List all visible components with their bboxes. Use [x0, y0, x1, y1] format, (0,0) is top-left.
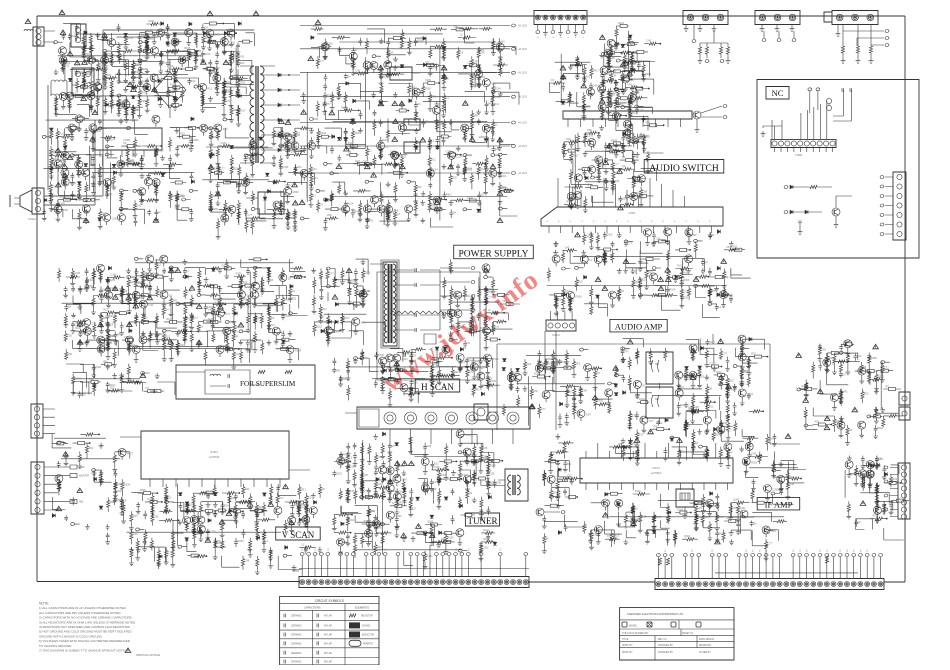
svg-text:C45: C45	[137, 204, 142, 207]
svg-text:R12: R12	[240, 185, 245, 188]
svg-text:AUDIO AMP: AUDIO AMP	[615, 322, 663, 332]
svg-text:R22: R22	[567, 463, 572, 466]
svg-text:REV 1.0: REV 1.0	[658, 639, 667, 641]
svg-text:R12: R12	[312, 168, 317, 171]
svg-text:ZD2: ZD2	[452, 177, 457, 180]
svg-text:R22: R22	[467, 327, 472, 330]
svg-text:MODEL: MODEL	[629, 625, 638, 627]
svg-text:Q4: Q4	[586, 236, 590, 239]
svg-text:C98: C98	[100, 64, 105, 67]
svg-text:RESISTOR: RESISTOR	[361, 616, 373, 618]
svg-text:D201: D201	[687, 377, 694, 380]
svg-text:C77: C77	[417, 141, 422, 144]
svg-text:R104: R104	[669, 288, 676, 291]
svg-text:R309: R309	[465, 434, 472, 437]
svg-text:ZD2: ZD2	[354, 132, 359, 135]
svg-text:C330: C330	[285, 315, 292, 318]
svg-text:R309: R309	[712, 505, 719, 508]
svg-text:Q4: Q4	[414, 209, 418, 212]
svg-text:+B 112V: +B 112V	[518, 145, 527, 148]
svg-text:R22: R22	[646, 121, 651, 124]
svg-text:CHECKED BY: CHECKED BY	[658, 645, 673, 647]
svg-text:VR1: VR1	[346, 461, 351, 464]
svg-text:ZD2: ZD2	[501, 186, 506, 189]
svg-text:C77: C77	[565, 290, 570, 293]
svg-text:C98: C98	[257, 317, 262, 320]
svg-text:R104: R104	[483, 529, 490, 532]
svg-text:D201: D201	[469, 371, 476, 374]
svg-text:R417: R417	[88, 130, 95, 133]
svg-text:C330: C330	[427, 555, 434, 558]
svg-text:R12: R12	[636, 192, 641, 195]
svg-text:IF AMP: IF AMP	[765, 500, 793, 510]
svg-text:C98: C98	[226, 44, 231, 47]
svg-text:R417: R417	[446, 193, 453, 196]
svg-text:C77: C77	[358, 290, 363, 293]
svg-text:R309: R309	[440, 474, 447, 477]
svg-text:R22: R22	[417, 186, 422, 189]
svg-text:R309: R309	[871, 357, 878, 360]
svg-text:C45: C45	[377, 526, 382, 529]
svg-text:MYLAR: MYLAR	[324, 661, 332, 664]
svg-text:D201: D201	[875, 465, 882, 468]
svg-text:R417: R417	[573, 155, 580, 158]
svg-text:R12: R12	[709, 406, 714, 409]
svg-text:DATE 2006-03: DATE 2006-03	[699, 638, 715, 641]
svg-text:R417: R417	[344, 317, 351, 320]
svg-text:NOTED BY: NOTED BY	[699, 652, 711, 654]
svg-text:ZD2: ZD2	[351, 209, 356, 212]
svg-text:R22: R22	[121, 107, 126, 110]
svg-text:R22: R22	[729, 379, 734, 382]
svg-text:C77: C77	[170, 91, 175, 94]
svg-text:D201: D201	[120, 100, 127, 103]
svg-text:V SCAN: V SCAN	[282, 530, 315, 540]
svg-text:R104: R104	[402, 358, 409, 361]
svg-text:R417: R417	[127, 452, 134, 455]
svg-text:C77: C77	[541, 408, 546, 411]
svg-text:R417: R417	[343, 454, 350, 457]
svg-text:VR1: VR1	[586, 105, 591, 108]
svg-text:R104: R104	[226, 82, 233, 85]
svg-text:C330: C330	[282, 166, 289, 169]
svg-text:ZD2: ZD2	[327, 214, 332, 217]
svg-text:R417: R417	[593, 69, 600, 72]
svg-text:C45: C45	[629, 138, 634, 141]
svg-text:R309: R309	[425, 87, 432, 90]
svg-text:R417: R417	[141, 91, 148, 94]
svg-text:VR1: VR1	[103, 297, 108, 300]
svg-text:Q302: Q302	[482, 547, 489, 550]
svg-text:ZD2: ZD2	[576, 363, 581, 366]
svg-text:TO CHASSIS GROUND.: TO CHASSIS GROUND.	[39, 644, 72, 648]
svg-text:ZD2: ZD2	[89, 447, 94, 450]
svg-text:C77: C77	[463, 295, 468, 298]
svg-text:C45: C45	[390, 151, 395, 154]
svg-text:R309: R309	[320, 132, 327, 135]
svg-text:VR1: VR1	[336, 369, 341, 372]
svg-text:VR1: VR1	[212, 71, 217, 74]
svg-text:D201: D201	[71, 35, 78, 38]
svg-text:D201: D201	[109, 279, 116, 282]
svg-text:C98: C98	[482, 456, 487, 459]
svg-text:VR1: VR1	[627, 84, 632, 87]
svg-text:R104: R104	[166, 318, 173, 321]
svg-text:R12: R12	[616, 43, 621, 46]
svg-text:R12: R12	[165, 335, 170, 338]
svg-text:CERAMIC: CERAMIC	[291, 661, 302, 664]
svg-text:C77: C77	[635, 182, 640, 185]
svg-text:D201: D201	[127, 37, 134, 40]
svg-text:D201: D201	[377, 546, 384, 549]
svg-text:ZD2: ZD2	[593, 368, 598, 371]
svg-text:R12: R12	[348, 142, 353, 145]
svg-text:R417: R417	[130, 281, 137, 284]
svg-text:C77: C77	[129, 159, 134, 162]
svg-text:C45: C45	[186, 326, 191, 329]
svg-text:C98: C98	[116, 499, 121, 502]
svg-text:C98: C98	[53, 167, 58, 170]
svg-text:R417: R417	[461, 474, 468, 477]
svg-text:R309: R309	[399, 465, 406, 468]
svg-text:SHENZHEN ELECTRONIC ENTERPRISE: SHENZHEN ELECTRONIC ENTERPRISES LTD.	[627, 612, 684, 616]
svg-text:C45: C45	[117, 483, 122, 486]
svg-text:C330: C330	[772, 489, 779, 492]
svg-text:R104: R104	[719, 516, 726, 519]
svg-text:C77: C77	[215, 300, 220, 303]
svg-text:R309: R309	[384, 380, 391, 383]
svg-text:Q302: Q302	[95, 130, 102, 133]
svg-text:D201: D201	[618, 22, 625, 25]
svg-text:C98: C98	[694, 406, 699, 409]
svg-text:R417: R417	[620, 75, 627, 78]
svg-text:Q302: Q302	[467, 197, 474, 200]
svg-text:C77: C77	[187, 291, 192, 294]
svg-text:C330: C330	[209, 531, 216, 534]
svg-text:Q302: Q302	[155, 259, 162, 262]
svg-text:R22: R22	[815, 421, 820, 424]
svg-text:VR1: VR1	[284, 299, 289, 302]
svg-text:4) RESISTORS NOT SPECIFIED ARE: 4) RESISTORS NOT SPECIFIED ARE CARBON FI…	[39, 625, 131, 629]
svg-text:Q302: Q302	[283, 132, 290, 135]
svg-text:VR1: VR1	[501, 175, 506, 178]
svg-text:ZD2: ZD2	[380, 200, 385, 203]
svg-text:R22: R22	[473, 85, 478, 88]
svg-text:D201: D201	[382, 139, 389, 142]
svg-text:R104: R104	[124, 483, 131, 486]
svg-text:C77: C77	[649, 420, 654, 423]
svg-text:D201: D201	[208, 318, 215, 321]
svg-text:C98: C98	[363, 474, 368, 477]
svg-text:C98: C98	[593, 534, 598, 537]
svg-text:R417: R417	[475, 389, 482, 392]
svg-text:VR1: VR1	[242, 299, 247, 302]
svg-text:C45: C45	[197, 55, 202, 58]
svg-text:R12: R12	[364, 520, 369, 523]
svg-text:R417: R417	[372, 65, 379, 68]
svg-text:R104: R104	[490, 380, 497, 383]
svg-text:ZD2: ZD2	[541, 364, 546, 367]
svg-text:AUDIO SWITCH: AUDIO SWITCH	[649, 164, 719, 174]
svg-text:R309: R309	[172, 195, 179, 198]
svg-text:R104: R104	[184, 47, 191, 50]
svg-text:R309: R309	[236, 273, 243, 276]
svg-text:VR1: VR1	[488, 103, 493, 106]
svg-text:C77: C77	[723, 352, 728, 355]
svg-text:ALL CAPACITORS ARE 50V UNLESS: ALL CAPACITORS ARE 50V UNLESS OTHERWISE …	[39, 611, 121, 615]
svg-text:C77: C77	[884, 366, 889, 369]
svg-text:TITLE: TITLE	[622, 639, 629, 641]
svg-text:C98: C98	[394, 209, 399, 212]
svg-text:C77: C77	[556, 479, 561, 482]
svg-text:HEATER: HEATER	[79, 475, 89, 478]
svg-text:C77: C77	[768, 543, 773, 546]
svg-text:MYLAR: MYLAR	[324, 634, 332, 637]
svg-text:ZD2: ZD2	[103, 317, 108, 320]
svg-text:ZD2: ZD2	[626, 58, 631, 61]
svg-text:6) VOLTAGES TAKEN WITH DIGITAL: 6) VOLTAGES TAKEN WITH DIGITAL VOLTMETER…	[39, 639, 131, 643]
svg-text:C330: C330	[726, 246, 733, 249]
svg-text:C330: C330	[632, 415, 639, 418]
svg-text:R22: R22	[300, 506, 305, 509]
svg-text:R12: R12	[473, 78, 478, 81]
svg-text:C45: C45	[480, 51, 485, 54]
svg-text:CN801: CN801	[795, 154, 803, 157]
svg-text:R417: R417	[441, 538, 448, 541]
svg-text:Q302: Q302	[417, 40, 424, 43]
svg-text:R417: R417	[475, 360, 482, 363]
svg-text:R417: R417	[512, 380, 519, 383]
svg-text:Q302: Q302	[95, 366, 102, 369]
svg-text:R22: R22	[479, 367, 484, 370]
svg-text:Q302: Q302	[635, 281, 642, 284]
svg-text:VR1: VR1	[698, 517, 703, 520]
svg-text:C77: C77	[107, 53, 112, 56]
svg-text:R309: R309	[295, 350, 302, 353]
svg-text:CERAMIC: CERAMIC	[291, 634, 302, 637]
svg-text:Q4: Q4	[322, 488, 326, 491]
svg-text:R22: R22	[226, 91, 231, 94]
svg-text:ABL: ABL	[79, 500, 84, 503]
svg-text:C330: C330	[683, 290, 690, 293]
svg-text:D201: D201	[488, 288, 495, 291]
svg-text:C77: C77	[329, 273, 334, 276]
svg-text:D201: D201	[109, 315, 116, 318]
svg-text:R417: R417	[513, 372, 520, 375]
svg-text:CAPACITORS: CAPACITORS	[304, 606, 321, 610]
svg-text:Q302: Q302	[622, 198, 629, 201]
svg-text:C330: C330	[60, 196, 67, 199]
svg-text:INDUCTOR: INDUCTOR	[362, 635, 374, 637]
svg-text:C77: C77	[319, 60, 324, 63]
svg-text:R104: R104	[432, 168, 439, 171]
svg-text:VR1: VR1	[103, 360, 108, 363]
svg-text:+B 112V: +B 112V	[518, 122, 527, 125]
svg-text:Q4: Q4	[711, 290, 715, 293]
svg-text:C45: C45	[732, 507, 737, 510]
svg-text:C330: C330	[709, 363, 716, 366]
svg-text:R309: R309	[868, 474, 875, 477]
svg-text:R22: R22	[355, 160, 360, 163]
svg-text:R309: R309	[293, 191, 300, 194]
svg-text:VR1: VR1	[389, 211, 394, 214]
svg-text:R22: R22	[632, 111, 637, 114]
svg-text:C77: C77	[220, 168, 225, 171]
svg-text:R104: R104	[547, 363, 554, 366]
svg-text:C77: C77	[193, 317, 198, 320]
svg-text:R309: R309	[378, 354, 385, 357]
svg-text:Q4: Q4	[753, 523, 757, 526]
svg-text:D201: D201	[716, 371, 723, 374]
svg-text:Q302: Q302	[289, 213, 296, 216]
svg-text:R12: R12	[586, 76, 591, 79]
svg-text:VR1: VR1	[301, 488, 306, 491]
svg-text:VR1: VR1	[117, 333, 122, 336]
svg-text:VR1: VR1	[173, 300, 178, 303]
svg-text:TUNER: TUNER	[468, 516, 498, 526]
svg-text:CERAMIC: CERAMIC	[291, 625, 302, 628]
svg-text:MYLAR: MYLAR	[324, 615, 332, 618]
svg-text:R12: R12	[733, 246, 738, 249]
svg-text:VR1: VR1	[472, 479, 477, 482]
svg-text:Q4: Q4	[236, 326, 240, 329]
svg-text:C45: C45	[133, 533, 138, 536]
svg-text:VR1: VR1	[474, 114, 479, 117]
svg-text:R104: R104	[743, 370, 750, 373]
svg-text:D201: D201	[60, 203, 67, 206]
svg-text:R22: R22	[70, 155, 75, 158]
svg-text:ZD2: ZD2	[473, 326, 478, 329]
svg-text:R22: R22	[292, 297, 297, 300]
svg-text:D201: D201	[365, 272, 372, 275]
svg-text:C45: C45	[473, 60, 478, 63]
svg-text:Q4: Q4	[235, 335, 239, 338]
svg-text:R22: R22	[245, 488, 250, 491]
svg-text:ZD2: ZD2	[81, 393, 86, 396]
svg-text:R104: R104	[342, 378, 349, 381]
svg-text:APPD. BY: APPD. BY	[622, 651, 633, 654]
svg-text:VR1: VR1	[137, 297, 142, 300]
svg-text:Q4: Q4	[613, 74, 617, 77]
svg-text:C330: C330	[327, 42, 334, 45]
svg-text:C45: C45	[615, 180, 620, 183]
svg-text:C98: C98	[141, 100, 146, 103]
svg-text:2) CAPACITORS WITH NO VOLTAGE: 2) CAPACITORS WITH NO VOLTAGE ARE CERAMI…	[39, 616, 133, 620]
svg-text:R104: R104	[138, 282, 145, 285]
svg-text:R417: R417	[240, 109, 247, 112]
svg-text:+B 112V: +B 112V	[518, 172, 527, 175]
svg-text:R12: R12	[704, 516, 709, 519]
svg-text:C98: C98	[610, 57, 615, 60]
svg-text:ZD2: ZD2	[555, 361, 560, 364]
svg-text:LA78040: LA78040	[209, 455, 220, 459]
svg-text:ZD2: ZD2	[247, 157, 252, 160]
svg-text:C330: C330	[456, 155, 463, 158]
svg-text:R22: R22	[566, 138, 571, 141]
svg-text:C45: C45	[355, 70, 360, 73]
svg-text:R12: R12	[187, 317, 192, 320]
svg-text:C98: C98	[489, 472, 494, 475]
svg-text:D201: D201	[617, 102, 624, 105]
svg-text:Q302: Q302	[189, 504, 196, 507]
svg-text:C330: C330	[446, 151, 453, 154]
svg-text:Q302: Q302	[196, 533, 203, 536]
svg-text:C330: C330	[179, 195, 186, 198]
svg-text:R309: R309	[351, 279, 358, 282]
svg-text:R309: R309	[158, 150, 165, 153]
svg-text:ZD2: ZD2	[751, 353, 756, 356]
svg-text:C45: C45	[215, 33, 220, 36]
svg-text:R104: R104	[96, 60, 103, 63]
svg-text:VR1: VR1	[369, 220, 374, 223]
svg-text:C77: C77	[248, 214, 253, 217]
svg-text:R104: R104	[347, 202, 354, 205]
svg-text:R417: R417	[726, 429, 733, 432]
svg-text:R104: R104	[635, 490, 642, 493]
svg-text:R104: R104	[109, 384, 116, 387]
svg-text:R12: R12	[391, 490, 396, 493]
svg-text:C45: C45	[646, 40, 651, 43]
svg-text:ZD2: ZD2	[223, 128, 228, 131]
svg-text:Q302: Q302	[109, 335, 116, 338]
svg-text:POWER SUPPLY: POWER SUPPLY	[458, 250, 528, 260]
svg-text:ZD2: ZD2	[481, 76, 486, 79]
svg-text:R417: R417	[70, 182, 77, 185]
svg-text:C45: C45	[491, 83, 496, 86]
svg-text:R22: R22	[677, 265, 682, 268]
svg-text:GND: GND	[79, 466, 85, 469]
svg-text:C330: C330	[220, 142, 227, 145]
svg-text:C98: C98	[245, 560, 250, 563]
svg-text:D201: D201	[432, 67, 439, 70]
svg-text:VR1: VR1	[843, 391, 848, 394]
svg-text:Q302: Q302	[333, 331, 340, 334]
svg-text:VR1: VR1	[566, 201, 571, 204]
svg-text:R104: R104	[233, 168, 240, 171]
svg-text:C330: C330	[289, 141, 296, 144]
svg-text:MYLAR: MYLAR	[324, 652, 332, 655]
svg-text:C330: C330	[207, 306, 214, 309]
svg-text:C98: C98	[643, 191, 648, 194]
svg-text:R22: R22	[434, 463, 439, 466]
svg-text:R104: R104	[462, 360, 469, 363]
svg-text:DRAWN BY: DRAWN BY	[699, 644, 712, 647]
svg-text:+B 112V: +B 112V	[518, 72, 527, 75]
svg-text:Q302: Q302	[691, 234, 698, 237]
svg-text:C98: C98	[587, 129, 592, 132]
svg-text:D201: D201	[740, 507, 747, 510]
svg-text:R22: R22	[406, 390, 411, 393]
svg-text:R22: R22	[843, 340, 848, 343]
svg-text:VR1: VR1	[68, 353, 73, 356]
svg-text:R104: R104	[258, 506, 265, 509]
svg-text:VR1: VR1	[729, 388, 734, 391]
svg-text:R104: R104	[224, 505, 231, 508]
svg-text:C98: C98	[453, 25, 458, 28]
svg-text:C330: C330	[112, 218, 119, 221]
svg-text:+B 112V: +B 112V	[518, 48, 527, 51]
svg-text:D201: D201	[86, 56, 93, 59]
svg-text:C77: C77	[769, 438, 774, 441]
svg-text:C330: C330	[350, 465, 357, 468]
svg-text:C330: C330	[587, 135, 594, 138]
svg-text:R104: R104	[534, 373, 541, 376]
svg-text:R104: R104	[154, 182, 161, 185]
svg-text:R104: R104	[64, 62, 71, 65]
svg-text:C77: C77	[608, 180, 613, 183]
svg-text:ZD2: ZD2	[683, 272, 688, 275]
svg-text:MYLAR: MYLAR	[324, 643, 332, 646]
